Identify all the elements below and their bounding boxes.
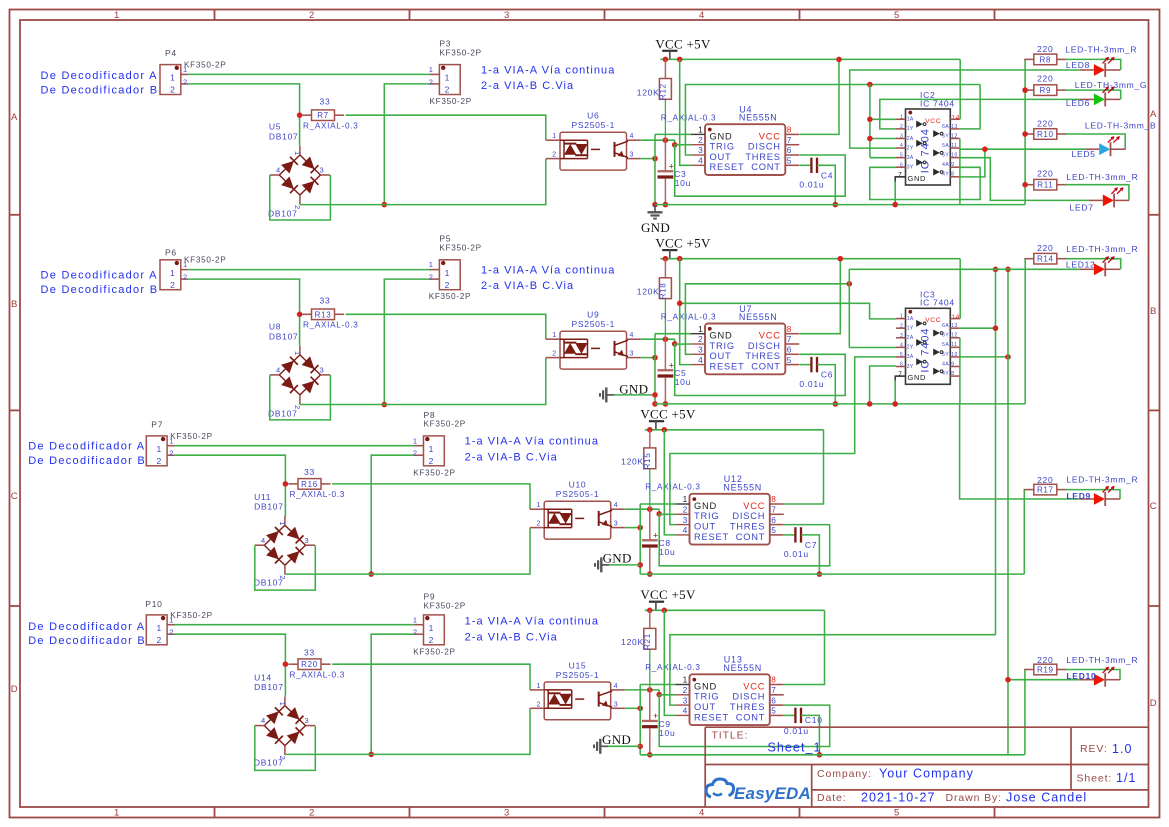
svg-text:1: 1 <box>156 623 161 633</box>
svg-text:4: 4 <box>276 365 281 374</box>
junction bus R11 <box>1022 182 1028 188</box>
svg-text:OUT: OUT <box>710 152 732 162</box>
svg-text:10: 10 <box>951 153 957 159</box>
ground <box>600 745 608 747</box>
svg-text:7: 7 <box>771 505 776 515</box>
svg-text:VCC +5V: VCC +5V <box>655 236 711 251</box>
svg-text:VCC: VCC <box>759 131 781 141</box>
optocoupler U10 (PS2505-1) <box>544 501 611 539</box>
wire R12 leads <box>664 59 666 78</box>
resistor R19 (220) <box>1024 669 1034 671</box>
svg-text:IC 7404: IC 7404 <box>919 328 931 373</box>
svg-text:GND: GND <box>694 501 717 511</box>
svg-text:2: 2 <box>278 756 287 761</box>
svg-text:R_AXIAL-0.3: R_AXIAL-0.3 <box>303 121 358 130</box>
svg-text:3: 3 <box>683 695 688 705</box>
svg-text:IC 7404: IC 7404 <box>920 298 955 308</box>
svg-text:5: 5 <box>894 10 900 21</box>
svg-text:14: 14 <box>951 314 960 321</box>
svg-text:DISCH: DISCH <box>732 511 765 521</box>
svg-text:1: 1 <box>537 502 542 509</box>
resistor R18 (120K) <box>659 278 671 299</box>
svg-text:2: 2 <box>309 808 315 819</box>
wire U9.4 to junction <box>641 338 675 340</box>
svg-text:CONT: CONT <box>736 712 766 722</box>
wire 555 pin1 GND (row3) <box>640 503 675 505</box>
junction P3.2 at bottom net <box>382 202 388 208</box>
svg-text:TRIG: TRIG <box>710 341 735 351</box>
svg-text:Your Company: Your Company <box>879 767 974 781</box>
svg-text:7: 7 <box>787 135 792 145</box>
wire R14 drop to row2 GND rail <box>1024 259 1026 404</box>
svg-text:3Y: 3Y <box>907 165 914 171</box>
junction R7 left <box>297 112 303 118</box>
junction C5 top <box>663 336 669 342</box>
resistor R14 (220) <box>1024 258 1034 260</box>
LED LED12 (LED-TH-3mm_R) <box>1080 268 1094 270</box>
svg-text:NE555N: NE555N <box>739 113 778 123</box>
svg-text:2: 2 <box>278 575 287 580</box>
svg-text:3A: 3A <box>907 354 914 360</box>
svg-text:1: 1 <box>278 702 287 707</box>
junction pin8 vcc <box>836 57 842 63</box>
wire TRIG <box>675 144 691 146</box>
capacitor C7 (0.01u) <box>794 527 796 542</box>
junction P8.2 bottom <box>368 571 374 577</box>
svg-text:1: 1 <box>183 65 188 74</box>
junction C8 bottom <box>647 571 653 577</box>
svg-text:8: 8 <box>951 172 954 178</box>
svg-text:LED7: LED7 <box>1070 202 1094 212</box>
junction 2A <box>867 136 873 142</box>
svg-text:1: 1 <box>183 260 188 269</box>
svg-text:8: 8 <box>787 324 792 334</box>
wire 6A from row4 OUT riser <box>960 327 996 329</box>
svg-text:6: 6 <box>771 695 776 705</box>
svg-text:7: 7 <box>787 334 792 344</box>
svg-text:0.01u: 0.01u <box>784 549 809 559</box>
svg-text:2: 2 <box>683 685 688 695</box>
junction GND rail left <box>652 202 658 208</box>
svg-text:U15: U15 <box>569 660 587 670</box>
inter-row riser row4 OUT to row2 6A <box>995 269 997 634</box>
VCC rail (row 2) <box>660 258 960 260</box>
optocoupler U15 (PS2505-1) <box>544 682 611 720</box>
svg-text:1: 1 <box>413 615 418 624</box>
svg-text:7: 7 <box>771 685 776 695</box>
svg-text:3Y: 3Y <box>907 364 914 370</box>
junction TRIG (row3) <box>658 509 660 514</box>
connector P3 (KF350-2P) <box>439 65 460 95</box>
junction TRIG <box>674 140 676 145</box>
svg-text:120K: 120K <box>621 457 644 467</box>
svg-text:C: C <box>11 491 19 502</box>
svg-text:3: 3 <box>630 152 635 159</box>
svg-text:U11: U11 <box>254 492 271 502</box>
svg-text:1: 1 <box>683 494 688 504</box>
svg-text:R10: R10 <box>1037 130 1054 139</box>
svg-text:1: 1 <box>900 114 903 120</box>
svg-text:R_AXIAL-0.3: R_AXIAL-0.3 <box>645 483 700 492</box>
junction C3 bottom <box>663 202 669 208</box>
wire U9.3 to GND vert <box>641 357 655 359</box>
wire RESET tie-high (row2) <box>680 259 691 365</box>
svg-text:De Decodificador B: De Decodificador B <box>28 635 146 647</box>
svg-text:VCC: VCC <box>743 681 765 691</box>
svg-text:4: 4 <box>699 808 705 819</box>
wire R11 to LED7 cathode <box>1065 185 1129 201</box>
junction 3Y gnd <box>867 401 873 407</box>
svg-text:4: 4 <box>614 683 619 690</box>
svg-text:1: 1 <box>445 268 450 278</box>
svg-text:U9: U9 <box>587 310 599 320</box>
svg-text:11: 11 <box>951 143 957 149</box>
svg-text:OUT: OUT <box>710 351 732 361</box>
svg-text:R12: R12 <box>659 83 668 100</box>
wire 1A feed from reset net <box>680 303 896 319</box>
wire 555 pin1 GND (row4) <box>640 684 675 686</box>
wire pin1 net down to GND rail (row4) <box>639 685 641 755</box>
svg-text:DB107: DB107 <box>269 331 299 341</box>
svg-text:KF350-2P: KF350-2P <box>424 420 466 429</box>
svg-text:4: 4 <box>614 502 619 509</box>
svg-text:10u: 10u <box>675 178 691 188</box>
svg-text:VCC +5V: VCC +5V <box>655 36 711 51</box>
svg-text:R_AXIAL-0.3: R_AXIAL-0.3 <box>661 113 716 122</box>
svg-text:RESET: RESET <box>710 361 745 371</box>
svg-text:2A: 2A <box>907 335 914 341</box>
svg-text:1: 1 <box>429 444 434 454</box>
wire THRES loop (row3) <box>659 514 830 566</box>
EasyEDA logo <box>706 779 734 797</box>
wire P5.2 down <box>384 279 429 404</box>
svg-text:DB107: DB107 <box>268 408 298 418</box>
inverter IC IC2 (IC 7404) <box>906 109 951 185</box>
svg-text:RESET: RESET <box>694 712 729 722</box>
wire gnd stem (row3) <box>609 564 640 566</box>
svg-text:CONT: CONT <box>736 532 766 542</box>
wire OUT up to riser (row4) <box>670 635 996 705</box>
resistor R9 (220) <box>1024 89 1034 91</box>
svg-text:2-a VIA-B C.Via: 2-a VIA-B C.Via <box>465 631 558 643</box>
svg-text:13: 13 <box>951 124 957 130</box>
svg-text:2: 2 <box>429 456 434 466</box>
junction R12 top <box>663 57 669 63</box>
svg-text:4A: 4A <box>942 361 949 367</box>
wire 3Y to 4A <box>870 167 980 199</box>
svg-text:P5: P5 <box>439 234 451 244</box>
wire 555 pin1 GND (row2) <box>655 333 691 335</box>
svg-text:KF350-2P: KF350-2P <box>413 468 455 477</box>
svg-text:2A: 2A <box>907 136 914 142</box>
svg-text:4: 4 <box>276 166 281 175</box>
inverter IC IC3 (IC 7404) <box>906 308 951 384</box>
capacitor C6 (0.01u) <box>810 357 812 372</box>
svg-text:1A: 1A <box>907 117 914 123</box>
wire P3.2 down <box>384 84 429 205</box>
resistor R13 (33) <box>302 313 312 315</box>
svg-text:3A: 3A <box>907 155 914 161</box>
svg-text:THRES: THRES <box>745 351 780 361</box>
wire R7 to U6 pin1 <box>346 115 546 140</box>
svg-text:KF350-2P: KF350-2P <box>439 48 481 57</box>
svg-text:GND: GND <box>694 681 717 691</box>
svg-text:1Y: 1Y <box>907 126 914 132</box>
wire 6Y down (row2) <box>959 338 961 404</box>
svg-text:R15: R15 <box>643 453 652 470</box>
junction OUT branch <box>867 82 873 88</box>
wire C7 to GND rail <box>801 535 819 574</box>
svg-text:RESET: RESET <box>694 532 729 542</box>
svg-text:R8: R8 <box>1040 55 1052 64</box>
svg-text:4: 4 <box>683 525 688 535</box>
svg-text:14: 14 <box>951 115 960 122</box>
svg-text:2: 2 <box>293 405 302 410</box>
svg-text:REV:: REV: <box>1080 743 1108 755</box>
svg-text:5: 5 <box>787 156 792 166</box>
svg-text:3: 3 <box>698 145 703 155</box>
svg-text:2: 2 <box>170 85 175 95</box>
capacitor C9 (10u) <box>649 690 651 721</box>
svg-text:2: 2 <box>156 456 161 466</box>
junction RESET drop top (row4) <box>662 608 668 614</box>
wire 3Y to GND rail (row2) <box>870 366 896 404</box>
resistor bus (row 1) <box>1024 59 1026 204</box>
svg-text:De Decodificador B: De Decodificador B <box>41 84 159 96</box>
svg-text:TRIG: TRIG <box>694 511 719 521</box>
wire bridge pin2 to U6 pin2 <box>300 159 546 205</box>
svg-text:P4: P4 <box>165 48 177 58</box>
svg-text:5: 5 <box>787 355 792 365</box>
junction RESET drop top <box>677 57 683 63</box>
wire R19 to LED10 cathode <box>1065 670 1120 680</box>
wire P7.1 to P8.1 <box>175 445 414 447</box>
svg-text:D: D <box>1150 698 1158 709</box>
svg-text:DB107: DB107 <box>269 131 299 141</box>
svg-text:B: B <box>1150 306 1157 317</box>
frame row ticks left <box>10 214 21 216</box>
connector P5 (KF350-2P) <box>439 260 460 290</box>
svg-text:1: 1 <box>552 133 557 140</box>
svg-text:R_AXIAL-0.3: R_AXIAL-0.3 <box>645 663 700 672</box>
junction R16 left <box>283 481 289 487</box>
svg-text:33: 33 <box>304 647 315 657</box>
svg-text:R20: R20 <box>301 660 318 669</box>
svg-text:1: 1 <box>293 351 302 356</box>
svg-text:4: 4 <box>261 536 266 545</box>
svg-text:PS2505-1: PS2505-1 <box>572 120 616 130</box>
svg-text:1: 1 <box>293 151 302 156</box>
svg-text:De Decodificador A: De Decodificador A <box>28 441 145 453</box>
svg-text:4: 4 <box>699 10 705 21</box>
svg-text:6: 6 <box>771 515 776 525</box>
svg-text:4: 4 <box>900 143 903 149</box>
resistor R8 (220) <box>1024 58 1034 60</box>
svg-text:6: 6 <box>787 145 792 155</box>
svg-text:KF350-2P: KF350-2P <box>170 432 212 441</box>
svg-text:1: 1 <box>170 73 175 83</box>
timer U4 (NE555N) <box>705 124 785 175</box>
svg-text:LED12: LED12 <box>1066 260 1096 270</box>
svg-text:VCC: VCC <box>759 331 781 341</box>
ground <box>601 564 609 566</box>
svg-text:R11: R11 <box>1037 181 1053 190</box>
wire R21 leads <box>649 610 651 628</box>
svg-text:De Decodificador A: De Decodificador A <box>28 621 145 633</box>
resistor R11 (220) <box>1024 184 1034 186</box>
connector P10 (KF350-2P) <box>146 615 167 645</box>
svg-text:2: 2 <box>169 628 174 637</box>
junction R13 left <box>297 312 303 318</box>
svg-text:PS2505-1: PS2505-1 <box>556 670 600 680</box>
svg-text:5: 5 <box>771 706 776 716</box>
wire P7.2 down to R16 <box>175 455 286 516</box>
LED LED10 (LED-TH-3mm_R) <box>1080 679 1094 681</box>
svg-text:R7: R7 <box>317 111 329 120</box>
svg-text:3: 3 <box>305 716 310 725</box>
svg-text:1: 1 <box>169 615 174 624</box>
svg-text:P8: P8 <box>424 410 436 420</box>
capacitor C5 (10u) <box>664 339 666 370</box>
svg-text:DB107: DB107 <box>254 682 284 692</box>
svg-text:C: C <box>1150 501 1158 512</box>
wire OUT branch to 1A 2A 3A <box>869 85 871 158</box>
junction bus R9 <box>1022 87 1028 93</box>
LED LED7 (LED-TH-3mm_R) <box>1089 199 1103 201</box>
junction LED10 anode riser <box>1005 677 1011 683</box>
svg-text:4: 4 <box>698 156 703 166</box>
svg-text:NE555N: NE555N <box>723 482 762 492</box>
svg-text:8: 8 <box>951 371 954 377</box>
GND rail (row 3) <box>640 573 1024 575</box>
svg-text:8: 8 <box>771 675 776 685</box>
svg-text:4: 4 <box>900 342 903 348</box>
svg-text:12: 12 <box>951 133 957 139</box>
wire bridge AC loop (row3) <box>255 545 315 590</box>
junction C6 gnd <box>833 401 839 407</box>
svg-text:3: 3 <box>504 808 510 819</box>
svg-text:OUT: OUT <box>694 702 716 712</box>
svg-text:LED10: LED10 <box>1066 671 1096 681</box>
wire P8.2 down <box>371 455 413 574</box>
junction riser 6A <box>993 325 999 331</box>
svg-text:A: A <box>1150 109 1157 120</box>
svg-text:R16: R16 <box>301 480 318 489</box>
junction 1A feed <box>677 301 683 307</box>
junction riser 6A top <box>993 267 999 273</box>
svg-text:De Decodificador A: De Decodificador A <box>41 270 158 282</box>
wire R14 to LED12 cathode <box>1065 259 1121 270</box>
svg-text:KF350-2P: KF350-2P <box>170 611 212 620</box>
junction U6.3 <box>652 156 658 162</box>
wire R20 to U15 pin1 <box>332 664 530 690</box>
svg-text:3: 3 <box>320 365 325 374</box>
frame column ticks bottom <box>214 807 216 818</box>
junction U10.3 <box>637 525 643 531</box>
connector P8 (KF350-2P) <box>424 436 445 466</box>
wire 5Y to LED10 riser <box>960 356 1008 358</box>
svg-text:NE555N: NE555N <box>723 663 762 673</box>
junction R15 top <box>647 427 653 433</box>
svg-text:1-a VIA-A Vía continua: 1-a VIA-A Vía continua <box>481 265 615 277</box>
wire RESET tie-high (row3) <box>664 430 675 535</box>
svg-text:Date:: Date: <box>817 792 847 804</box>
svg-text:9: 9 <box>951 162 954 168</box>
svg-text:120K: 120K <box>621 637 644 647</box>
svg-text:R17: R17 <box>1037 486 1054 495</box>
resistor bus (row 4) <box>1024 670 1026 755</box>
svg-text:2: 2 <box>156 635 161 645</box>
junction TRIG (row4) <box>658 690 660 695</box>
svg-text:EasyEDA: EasyEDA <box>734 784 811 803</box>
wire CONT to C6 <box>800 364 812 366</box>
wire bridge pin2 to U10 pin2 <box>285 528 530 575</box>
svg-text:De Decodificador B: De Decodificador B <box>41 284 159 296</box>
svg-text:2: 2 <box>537 701 542 708</box>
wire 555 pin8 to VCC rail (row4) <box>784 610 824 684</box>
svg-text:2: 2 <box>309 10 315 21</box>
svg-text:1: 1 <box>445 73 450 83</box>
svg-text:2: 2 <box>170 280 175 290</box>
svg-text:6: 6 <box>900 162 903 168</box>
svg-text:2Y: 2Y <box>907 145 914 151</box>
timer U13 (NE555N) <box>690 674 770 725</box>
junction C10 gnd <box>817 752 823 758</box>
svg-text:IC 7404: IC 7404 <box>919 128 931 173</box>
svg-text:4: 4 <box>683 706 688 716</box>
GND rail (row 2) <box>655 403 1025 405</box>
wire THRES loop <box>675 145 846 196</box>
capacitor C10 (0.01u) <box>794 708 796 723</box>
svg-text:GND: GND <box>602 732 631 747</box>
svg-text:KF350-2P: KF350-2P <box>184 256 226 265</box>
wire LED12 anode line <box>849 268 1080 270</box>
wire CONT to C4 <box>800 164 812 166</box>
wire 555 pin8 to VCC rail <box>800 59 839 134</box>
bridge rectifier U14 (DB107) <box>264 706 285 726</box>
capacitor C8 (10u) <box>649 509 651 540</box>
junction C9 top <box>647 687 653 693</box>
svg-text:D: D <box>11 684 19 695</box>
svg-text:GND: GND <box>908 174 927 183</box>
svg-text:2: 2 <box>429 635 434 645</box>
wire pin1 net down to GND rail (row2) <box>654 334 656 404</box>
wire OUT up to row2 3A <box>670 357 896 525</box>
svg-text:220: 220 <box>1037 44 1053 54</box>
svg-text:TRIG: TRIG <box>710 142 735 152</box>
resistor R15 (120K) <box>644 448 656 469</box>
svg-text:P7: P7 <box>151 419 163 429</box>
wire R18 leads <box>664 259 666 278</box>
svg-text:2-a VIA-B C.Via: 2-a VIA-B C.Via <box>481 280 574 292</box>
wire R10 to LED5 cathode <box>1065 134 1125 149</box>
timer U7 (NE555N) <box>705 324 785 375</box>
wire R17 to LED9 cathode <box>1065 490 1120 499</box>
resistor R17 (220) <box>1024 489 1034 491</box>
svg-text:GND: GND <box>908 373 927 382</box>
bridge rectifier U11 (DB107) <box>264 525 285 545</box>
svg-text:33: 33 <box>320 296 331 306</box>
svg-text:8: 8 <box>787 125 792 135</box>
junction gnd stem (row2) <box>652 392 658 398</box>
svg-text:B: B <box>11 299 18 310</box>
svg-text:4: 4 <box>630 332 635 339</box>
junction P5.2 bottom <box>382 402 388 408</box>
svg-text:2-a VIA-B C.Via: 2-a VIA-B C.Via <box>481 80 574 92</box>
wire 555 pin8 to VCC rail (row3) <box>784 430 823 504</box>
wire pin1 net down to GND rail (row3) <box>639 504 641 574</box>
svg-text:KF350-2P: KF350-2P <box>429 292 471 301</box>
